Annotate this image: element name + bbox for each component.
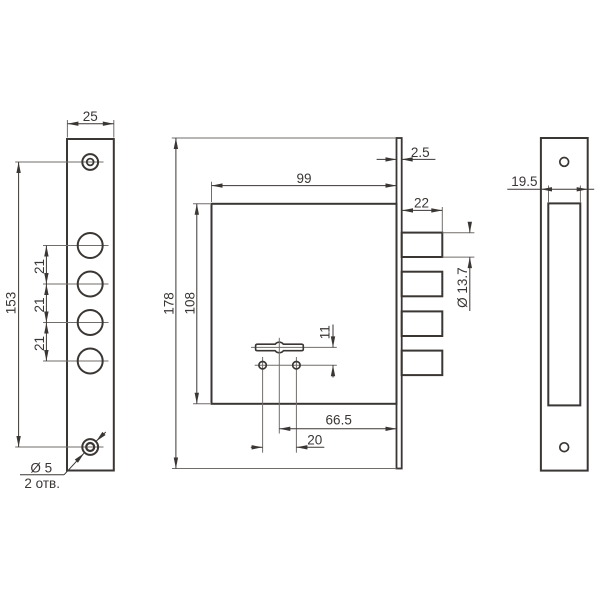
- svg-text:25: 25: [83, 109, 98, 124]
- strike plate slot: [548, 203, 580, 405]
- diameter 5 leader: [20, 432, 106, 475]
- key bar centerline: [251, 346, 337, 348]
- dim 99 line and arrows: [212, 183, 397, 187]
- svg-text:11: 11: [317, 325, 332, 339]
- dim 2.5 lines and arrows: [377, 157, 436, 161]
- bottom screw hole centerline: [15, 446, 103, 448]
- hole circle 2 centerline: [43, 283, 109, 285]
- strike plate bottom hole: [560, 443, 569, 452]
- dim 21 lines and arrows: [44, 246, 48, 362]
- faceplate outline: [67, 139, 114, 471]
- bolt 1: [402, 233, 443, 257]
- dim 108 line and arrows: [195, 204, 199, 404]
- strike plate outline: [541, 138, 588, 471]
- svg-text:108: 108: [183, 292, 198, 315]
- dim 13.7 line and arrows: [468, 222, 472, 311]
- dim 66.5 line and arrows: [279, 427, 396, 431]
- dim 22 line and arrows: [402, 208, 442, 212]
- svg-text:19.5: 19.5: [511, 174, 537, 189]
- dim 11 line and arrows: [331, 325, 335, 378]
- dim 99 extension line: [211, 182, 213, 202]
- key bar: [256, 342, 304, 353]
- svg-text:21: 21: [32, 297, 47, 312]
- faceplate edge strip: [397, 138, 402, 469]
- dim 178 line and arrows: [174, 138, 178, 469]
- hole circle 4 centerline: [43, 360, 109, 362]
- svg-text:2 отв.: 2 отв.: [24, 476, 60, 491]
- dim 20 lines and arrows: [251, 445, 324, 449]
- bolt 3: [402, 311, 443, 336]
- svg-text:66.5: 66.5: [326, 412, 352, 427]
- svg-text:21: 21: [32, 259, 47, 274]
- svg-text:178: 178: [162, 292, 177, 315]
- top screw hole centerline: [15, 161, 103, 163]
- hole circle 2: [78, 272, 103, 297]
- dim 19.5 extension lines: [549, 186, 581, 204]
- strike plate top hole: [560, 158, 569, 167]
- dim 25 line and arrows: [67, 122, 113, 126]
- svg-text:20: 20: [307, 433, 322, 448]
- right small circle: [293, 362, 300, 369]
- lock case outline: [212, 204, 397, 404]
- svg-text:2.5: 2.5: [411, 145, 430, 160]
- dim 19.5 line and arrows: [507, 187, 594, 191]
- key bar vertical centerline: [278, 338, 280, 434]
- left small circle: [259, 362, 266, 369]
- right small circle vertical centerline: [295, 357, 297, 453]
- dim 25 extension lines: [67, 120, 113, 138]
- dim 108 extension lines: [193, 204, 210, 404]
- bolt 2: [402, 272, 443, 297]
- svg-text:Ø 13.7: Ø 13.7: [455, 267, 470, 308]
- bolt 4: [402, 351, 443, 376]
- left small circle vertical centerline: [262, 357, 264, 453]
- hole circle 3 centerline: [43, 322, 109, 324]
- bottom screw hole: [82, 439, 98, 455]
- dim 22 extension line: [441, 207, 443, 232]
- hole circle 3: [78, 310, 103, 335]
- dim 178 extension lines: [172, 138, 397, 469]
- svg-text:21: 21: [32, 336, 47, 351]
- svg-text:99: 99: [296, 171, 311, 186]
- top screw hole: [82, 154, 98, 170]
- hole circle 1 centerline: [43, 245, 109, 247]
- svg-text:153: 153: [3, 292, 18, 315]
- hole circle 4: [78, 349, 103, 374]
- svg-text:22: 22: [414, 196, 429, 211]
- hole circle 1: [78, 233, 103, 258]
- dim 13.7 extension lines: [442, 233, 474, 257]
- small circles centerline: [255, 364, 337, 366]
- svg-text:Ø 5: Ø 5: [30, 461, 52, 476]
- dim 153 line and arrows: [16, 162, 20, 447]
